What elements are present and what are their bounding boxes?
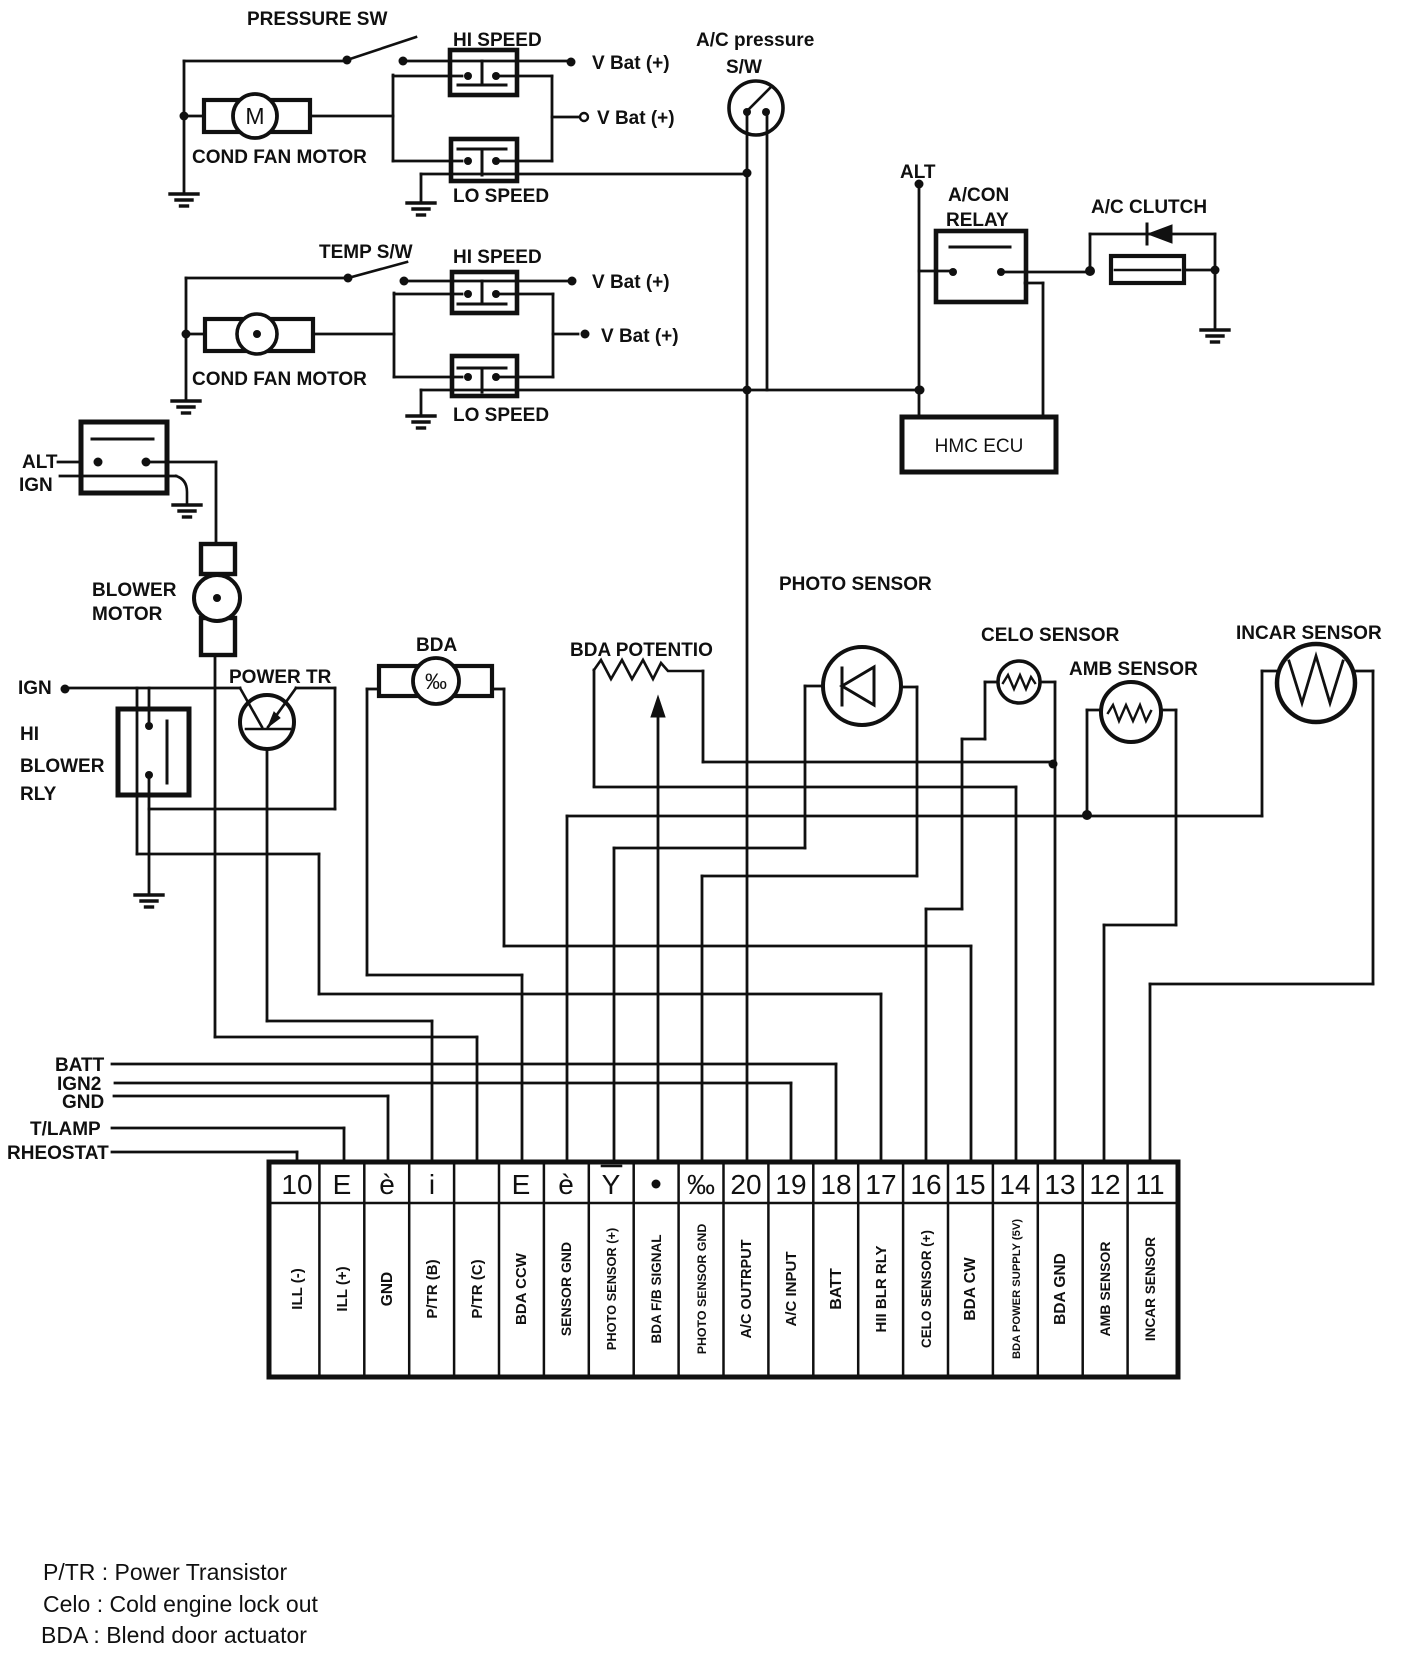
svg-text:A/C OUTRPUT: A/C OUTRPUT bbox=[739, 1239, 755, 1338]
svg-text:HI: HI bbox=[20, 724, 39, 745]
svg-text:M: M bbox=[245, 103, 264, 129]
svg-text:GND: GND bbox=[379, 1272, 396, 1306]
svg-text:CELO SENSOR: CELO SENSOR bbox=[981, 625, 1120, 646]
svg-text:ALT: ALT bbox=[22, 452, 58, 473]
svg-text:AMB SENSOR: AMB SENSOR bbox=[1097, 1242, 1113, 1337]
svg-text:V Bat (+): V Bat (+) bbox=[597, 108, 675, 129]
svg-text:MOTOR: MOTOR bbox=[92, 604, 163, 625]
svg-text:HMC ECU: HMC ECU bbox=[935, 436, 1024, 457]
svg-text:PHOTO SENSOR: PHOTO SENSOR bbox=[779, 574, 932, 595]
svg-text:INCAR SENSOR: INCAR SENSOR bbox=[1143, 1237, 1158, 1341]
svg-text:Y: Y bbox=[602, 1169, 621, 1200]
svg-text:13: 13 bbox=[1044, 1169, 1075, 1200]
svg-text:P/TR (B): P/TR (B) bbox=[424, 1259, 441, 1318]
svg-text:POWER TR: POWER TR bbox=[229, 667, 332, 688]
svg-text:PHOTO SENSOR (+): PHOTO SENSOR (+) bbox=[604, 1228, 619, 1350]
svg-text:SENSOR GND: SENSOR GND bbox=[558, 1242, 574, 1336]
svg-text:RHEOSTAT: RHEOSTAT bbox=[7, 1143, 109, 1164]
svg-text:GND: GND bbox=[62, 1092, 104, 1113]
svg-text:TEMP S/W: TEMP S/W bbox=[319, 242, 413, 263]
svg-text:P/TR : Power Transistor: P/TR : Power Transistor bbox=[43, 1559, 287, 1585]
svg-text:ILL (+): ILL (+) bbox=[334, 1266, 351, 1311]
svg-text:BDA CW: BDA CW bbox=[962, 1257, 979, 1321]
svg-text:HI SPEED: HI SPEED bbox=[453, 247, 542, 268]
svg-text:BLOWER: BLOWER bbox=[20, 756, 105, 777]
svg-text:BDA CCW: BDA CCW bbox=[513, 1252, 530, 1325]
svg-text:BDA GND: BDA GND bbox=[1052, 1253, 1069, 1325]
svg-text:BDA : Blend door actuator: BDA : Blend door actuator bbox=[41, 1622, 307, 1648]
svg-text:18: 18 bbox=[820, 1169, 851, 1200]
svg-text:‰: ‰ bbox=[687, 1169, 715, 1200]
svg-text:CELO SENSOR (+): CELO SENSOR (+) bbox=[919, 1230, 934, 1348]
svg-text:BATT: BATT bbox=[828, 1268, 845, 1310]
svg-text:BATT: BATT bbox=[55, 1055, 105, 1076]
svg-text:11: 11 bbox=[1135, 1169, 1164, 1200]
svg-text:ILL (-): ILL (-) bbox=[289, 1268, 306, 1309]
svg-text:A/C INPUT: A/C INPUT bbox=[783, 1252, 800, 1327]
svg-text:14: 14 bbox=[999, 1169, 1030, 1200]
svg-text:LO SPEED: LO SPEED bbox=[453, 405, 549, 426]
svg-text:IGN: IGN bbox=[19, 475, 53, 496]
svg-text:BDA POWER SUPPLY (5V): BDA POWER SUPPLY (5V) bbox=[1011, 1219, 1023, 1359]
svg-text:PHOTO SENSOR GND: PHOTO SENSOR GND bbox=[695, 1224, 709, 1355]
svg-text:20: 20 bbox=[730, 1169, 761, 1200]
svg-text:‰: ‰ bbox=[425, 669, 447, 694]
svg-text:PRESSURE SW: PRESSURE SW bbox=[247, 9, 387, 30]
svg-text:E: E bbox=[512, 1169, 531, 1200]
svg-text:A/C CLUTCH: A/C CLUTCH bbox=[1091, 197, 1207, 218]
svg-text:COND FAN MOTOR: COND FAN MOTOR bbox=[192, 369, 367, 390]
svg-text:V Bat (+): V Bat (+) bbox=[592, 272, 670, 293]
svg-text:17: 17 bbox=[865, 1169, 896, 1200]
svg-text:BDA F/B SIGNAL: BDA F/B SIGNAL bbox=[649, 1235, 664, 1344]
svg-text:COND FAN MOTOR: COND FAN MOTOR bbox=[192, 147, 367, 168]
svg-text:BDA: BDA bbox=[416, 635, 457, 656]
svg-text:IGN: IGN bbox=[18, 678, 52, 699]
svg-text:S/W: S/W bbox=[726, 57, 762, 78]
svg-text:E: E bbox=[333, 1169, 352, 1200]
svg-text:19: 19 bbox=[775, 1169, 806, 1200]
svg-text:RLY: RLY bbox=[20, 784, 57, 805]
svg-text:INCAR SENSOR: INCAR SENSOR bbox=[1236, 623, 1382, 644]
svg-text:BLOWER: BLOWER bbox=[92, 580, 177, 601]
svg-text:AMB SENSOR: AMB SENSOR bbox=[1069, 659, 1198, 680]
svg-text:V Bat (+): V Bat (+) bbox=[592, 53, 670, 74]
svg-text:15: 15 bbox=[954, 1169, 985, 1200]
svg-text:è: è bbox=[379, 1169, 395, 1200]
svg-text:T/LAMP: T/LAMP bbox=[30, 1119, 101, 1140]
svg-text:A/C pressure: A/C pressure bbox=[696, 30, 814, 51]
svg-text:P/TR (C): P/TR (C) bbox=[469, 1259, 486, 1318]
svg-text:HI SPEED: HI SPEED bbox=[453, 30, 542, 51]
svg-text:RELAY: RELAY bbox=[946, 210, 1009, 231]
svg-text:A/CON: A/CON bbox=[948, 185, 1009, 206]
svg-text:i: i bbox=[429, 1169, 435, 1200]
svg-text:12: 12 bbox=[1089, 1169, 1120, 1200]
svg-text:HII BLR RLY: HII BLR RLY bbox=[873, 1246, 890, 1333]
svg-text:Celo : Cold engine lock out: Celo : Cold engine lock out bbox=[43, 1591, 318, 1617]
svg-text:V Bat (+): V Bat (+) bbox=[601, 326, 679, 347]
svg-text:è: è bbox=[558, 1169, 574, 1200]
svg-text:16: 16 bbox=[910, 1169, 941, 1200]
svg-text:LO SPEED: LO SPEED bbox=[453, 186, 549, 207]
svg-text:10: 10 bbox=[281, 1169, 312, 1200]
svg-text:BDA POTENTIO: BDA POTENTIO bbox=[570, 640, 713, 661]
